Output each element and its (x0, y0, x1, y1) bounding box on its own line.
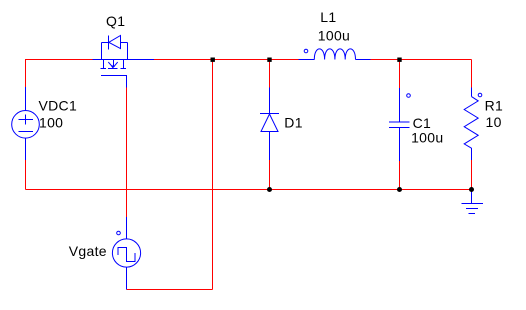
L1 left lead blue (298, 59, 314, 61)
svg-text:10: 10 (486, 114, 502, 130)
C1 bottom plate (389, 127, 410, 129)
VDC1 minus sign (18, 131, 32, 133)
source Vgate (112, 217, 140, 290)
Q1 right contact leg (123, 60, 125, 69)
node D1 top junction (267, 58, 271, 62)
transistor Q1 MOSFET (92, 35, 153, 87)
VDC1 bottom lead blue (25, 138, 27, 160)
ground bar 2 (466, 208, 478, 210)
wire D1 bottom red (269, 160, 271, 190)
svg-text:100: 100 (39, 115, 63, 131)
node switch junction (211, 58, 215, 62)
L1 coils (314, 49, 355, 60)
ground (461, 190, 483, 214)
resistor R1 (464, 88, 482, 161)
Q1 arrowhead (111, 65, 116, 68)
wire Vgate bottom horizontal red (127, 289, 213, 291)
wire top rail left (VDC1 to Q1 drain) (26, 60, 93, 88)
C1 top plate (389, 121, 410, 123)
Q1 body-diode right riser (127, 43, 129, 60)
R1 zigzag (464, 97, 478, 149)
Vgate dot marker (117, 231, 121, 235)
C1 bottom lead blue (399, 128, 401, 162)
VDC1 top lead blue (25, 87, 27, 111)
Q1 body-diode right horizontal (121, 42, 128, 44)
C1 dot marker (407, 94, 411, 98)
node ground junction (469, 187, 474, 192)
node D1 bottom junction (267, 187, 272, 192)
wire C1 bottom red (399, 161, 401, 190)
Q1 right contact foot (120, 68, 126, 70)
Vgate bottom lead blue (126, 267, 128, 289)
Q1 body-diode cathode bar (108, 35, 110, 49)
D1 triangle (261, 114, 278, 132)
svg-text:VDC1: VDC1 (39, 98, 78, 114)
diode D1 (260, 88, 279, 161)
Vgate circle (112, 239, 140, 267)
R1 bottom lead blue (471, 148, 473, 160)
VDC1 plus sign (18, 115, 32, 125)
D1 bottom lead blue (269, 132, 271, 161)
wire C1 top red (399, 60, 401, 89)
ground bar 1 (461, 203, 483, 205)
L1 dot marker (304, 49, 308, 53)
Q1 middle contact leg (113, 60, 115, 68)
Q1 body-diode triangle (109, 36, 121, 49)
wire D1 top red (269, 60, 271, 88)
Vgate top lead blue (126, 217, 128, 239)
R1 dot marker (478, 93, 482, 97)
Q1 left contact leg (103, 60, 105, 69)
svg-text:100u: 100u (318, 27, 350, 43)
ground stub (471, 190, 473, 204)
wire top rail right (L1 to R1 top) (370, 59, 471, 61)
Q1 left contact foot (101, 68, 107, 70)
wire R1 bottom red (471, 160, 473, 190)
Q1 gate bar (101, 75, 127, 77)
svg-text:Vgate: Vgate (69, 243, 107, 259)
inductor L1 (298, 49, 370, 60)
R1 top lead blue (471, 88, 473, 97)
Q1 arrow left diagonal (108, 62, 113, 67)
svg-text:100u: 100u (411, 130, 443, 146)
L1 right lead blue (356, 59, 371, 61)
D1 top lead blue (269, 88, 271, 114)
svg-text:R1: R1 (485, 98, 504, 114)
wire bottom rail (26, 189, 472, 191)
D1 cathode bar (260, 113, 279, 115)
node C1 top junction (397, 58, 401, 62)
wire R1 top red (471, 60, 473, 88)
Q1 gate lead blue (126, 76, 128, 88)
wire switch-node return vertical red (212, 60, 214, 290)
svg-text:D1: D1 (284, 115, 303, 131)
wire gate column red (126, 88, 128, 218)
Q1 arrow right diagonal (113, 62, 117, 67)
svg-text:L1: L1 (320, 9, 336, 25)
Q1 main drain-source line (92, 59, 153, 61)
wire top rail middle (Q1 source to L1) (154, 59, 299, 61)
Q1 middle contact foot (108, 68, 118, 70)
VDC1 circle (12, 111, 40, 139)
Q1 body-diode left riser (101, 43, 103, 60)
Vgate square-wave glyph (118, 248, 135, 262)
wire VDC1 bottom red (25, 160, 27, 190)
capacitor C1 (389, 88, 410, 161)
node C1 bottom junction (397, 187, 402, 192)
Q1 body-diode left horizontal (102, 42, 109, 44)
C1 top lead blue (399, 88, 401, 122)
source VDC1 (12, 87, 40, 160)
svg-text:Q1: Q1 (106, 13, 125, 29)
ground bar 3 (469, 213, 475, 215)
